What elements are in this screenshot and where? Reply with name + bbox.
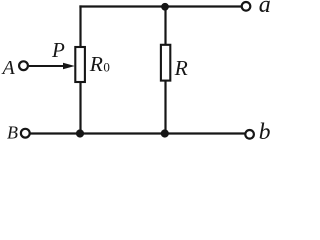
wiper arrowhead xyxy=(63,63,75,69)
wire top horizontal xyxy=(79,5,241,7)
svg-text:P: P xyxy=(51,38,65,62)
resistor R0 body xyxy=(75,47,85,82)
terminal b circle xyxy=(245,130,254,139)
wire from R0 bottom to bottom wire xyxy=(79,83,81,134)
wire bottom horizontal xyxy=(31,132,245,134)
svg-text:b: b xyxy=(259,119,271,143)
svg-text:R: R xyxy=(174,56,188,80)
svg-text:R: R xyxy=(89,52,103,76)
wire from top junction down to R top xyxy=(164,7,166,45)
wire from R bottom to bottom wire xyxy=(164,81,166,134)
svg-text:B: B xyxy=(7,122,18,142)
terminal A circle xyxy=(19,61,28,70)
resistor R body xyxy=(161,45,170,81)
wiper arrow wire from A xyxy=(29,65,67,67)
terminal B circle xyxy=(21,129,30,138)
terminal a circle xyxy=(242,2,251,11)
junction bottom under R xyxy=(161,129,169,137)
svg-text:A: A xyxy=(1,57,16,79)
junction bottom under R0 xyxy=(76,129,84,137)
junction top (R to top wire) xyxy=(161,3,169,11)
wire left vertical (top corner to R0 top) xyxy=(79,5,81,46)
svg-text:0: 0 xyxy=(103,60,110,75)
svg-text:a: a xyxy=(259,0,271,18)
